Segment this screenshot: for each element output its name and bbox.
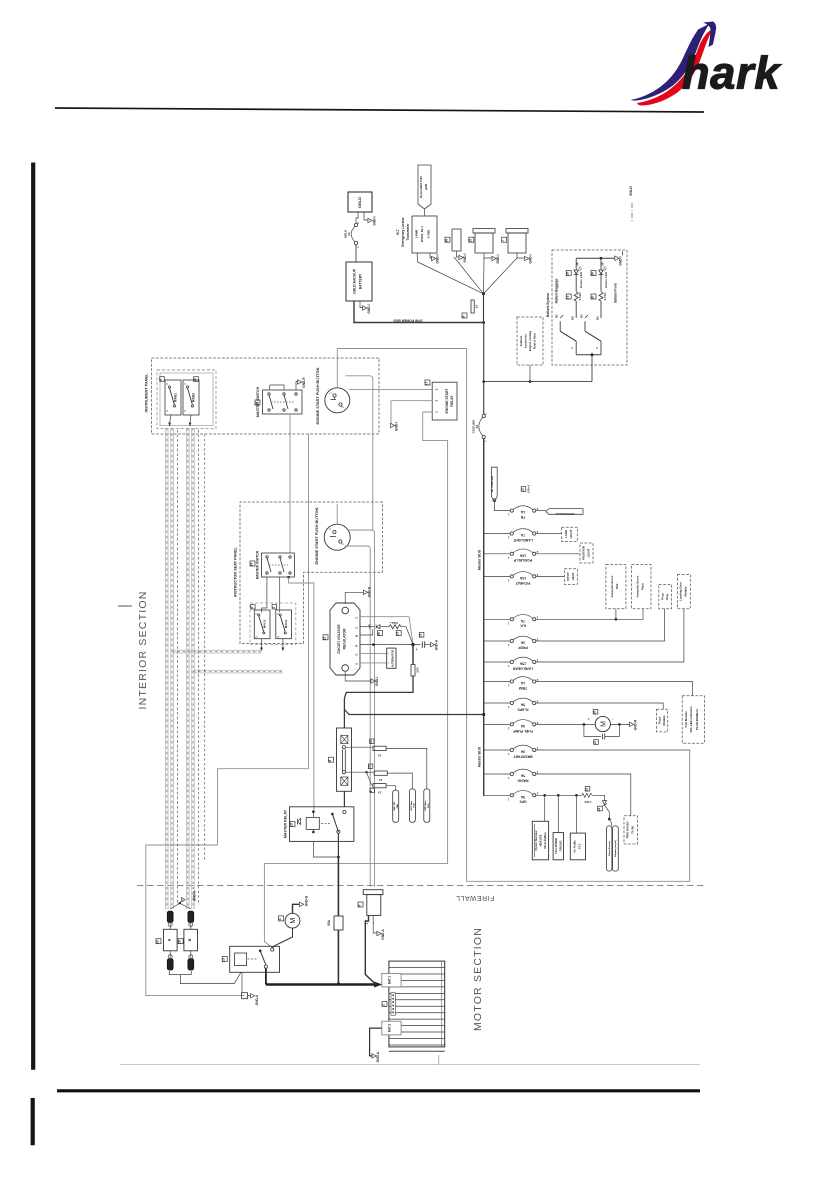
svg-text:1: 1 <box>278 636 280 638</box>
svg-text:BAT.2: BAT.2 <box>388 1023 392 1032</box>
svg-text:2: 2 <box>278 613 280 615</box>
svg-text:1: 1 <box>507 536 509 540</box>
svg-text:B: B <box>355 635 359 637</box>
svg-text:system for: system for <box>524 333 528 348</box>
svg-text:GND-B: GND-B <box>368 586 372 597</box>
svg-text:1: 1 <box>330 392 333 394</box>
svg-text:1: 1 <box>507 776 509 780</box>
svg-text:6: 6 <box>358 904 362 906</box>
svg-text:Green LED: Green LED <box>579 271 583 288</box>
svg-text:26: 26 <box>566 272 570 276</box>
svg-text:G: G <box>355 654 359 656</box>
svg-text:1: 1 <box>507 752 509 756</box>
svg-text:16: 16 <box>593 711 597 715</box>
svg-text:ENGINE START PUSH BUTTON: ENGINE START PUSH BUTTON <box>315 507 319 564</box>
svg-text:TRIM: TRIM <box>519 686 527 690</box>
svg-text:Pitch: Pitch <box>641 583 645 590</box>
svg-text:Trim Module: Trim Module <box>684 711 688 728</box>
svg-text:Roll: Roll <box>615 584 619 590</box>
svg-text:TRIG RADIO: TRIG RADIO <box>626 821 630 839</box>
svg-text:1: 1 <box>271 607 275 609</box>
svg-text:4.7kO: 4.7kO <box>603 292 607 301</box>
svg-text:50car-PgBus: 50car-PgBus <box>543 832 547 849</box>
svg-text:1A: 1A <box>347 231 351 236</box>
svg-text:MOTOR SECTION: MOTOR SECTION <box>472 927 484 1031</box>
svg-text:1-PWR: 1-PWR <box>415 230 419 239</box>
svg-text:AT-1: AT-1 <box>578 843 582 849</box>
svg-text:GND-A: GND-A <box>255 994 259 1005</box>
svg-text:Autopilot Servo: Autopilot Servo <box>610 575 614 597</box>
svg-text:Ballast-System: Ballast-System <box>546 293 550 317</box>
svg-text:Master BUS: Master BUS <box>478 746 482 767</box>
svg-text:5: 5 <box>435 388 439 390</box>
svg-text:13: 13 <box>419 634 423 638</box>
svg-text:1A: 1A <box>520 681 525 685</box>
svg-text:MAG2: MAG2 <box>192 393 196 402</box>
svg-text:Master BUS: Master BUS <box>478 549 482 570</box>
svg-text:Emergency Locator: Emergency Locator <box>401 216 405 246</box>
svg-text:10A: 10A <box>519 576 526 580</box>
svg-text:NC: NC <box>581 314 584 318</box>
svg-text:LAND: LAND <box>564 530 568 538</box>
svg-text:7A: 7A <box>520 619 525 623</box>
svg-text:ENGINE START: ENGINE START <box>445 388 449 414</box>
svg-text:Module: Module <box>684 586 688 597</box>
svg-text:2: 2 <box>382 1004 386 1006</box>
svg-text:Prop: Prop <box>661 593 665 600</box>
svg-text:1: 1 <box>256 636 258 638</box>
svg-text:1A: 1A <box>520 510 525 514</box>
svg-text:FIREWALL: FIREWALL <box>456 894 495 901</box>
svg-text:23: 23 <box>566 296 570 300</box>
svg-text:LANDLIGHT: LANDLIGHT <box>512 538 532 542</box>
svg-text:1: 1 <box>507 556 509 560</box>
svg-text:Green LED: Green LED <box>604 271 608 288</box>
svg-text:13: 13 <box>222 958 226 962</box>
svg-text:ENGINE START PUSH BUTTON: ENGINE START PUSH BUTTON <box>316 367 320 424</box>
svg-text:GND-R: GND-R <box>634 719 638 730</box>
svg-text:POSITION: POSITION <box>582 546 586 560</box>
svg-text:GBC 300: GBC 300 <box>394 801 396 811</box>
svg-text:1: 1 <box>357 246 360 248</box>
svg-text:AUX IN Radio: AUX IN Radio <box>555 512 574 516</box>
svg-text:14: 14 <box>250 563 254 567</box>
svg-text:3: 3 <box>278 918 282 920</box>
svg-text:17: 17 <box>425 382 429 386</box>
svg-text:GND-B: GND-B <box>305 895 309 906</box>
svg-text:MASTER RELAY: MASTER RELAY <box>284 809 288 838</box>
svg-text:GND-A: GND-A <box>381 929 385 940</box>
svg-text:ELT: ELT <box>396 229 400 235</box>
svg-text:FUEL PUMP: FUEL PUMP <box>513 729 533 733</box>
svg-text:2: 2 <box>185 383 187 385</box>
svg-text:14: 14 <box>255 402 259 406</box>
svg-text:PIT.HEAT: PIT.HEAT <box>515 581 531 585</box>
svg-text:25: 25 <box>377 632 381 636</box>
svg-text:1A: 1A <box>378 754 382 758</box>
svg-text:DUCATI VOLTAGE: DUCATI VOLTAGE <box>337 624 341 654</box>
svg-text:Air Traffic A/A: Air Traffic A/A <box>491 476 494 493</box>
svg-text:Flarm Remote: Flarm Remote <box>608 840 611 855</box>
svg-text:~: ~ <box>388 652 391 654</box>
svg-text:MASTER SWITCH: MASTER SWITCH <box>256 550 260 579</box>
svg-text:1A: 1A <box>378 791 382 795</box>
svg-text:GND-I: GND-I <box>496 254 500 263</box>
svg-text:BRS/START: BRS/START <box>513 754 533 758</box>
svg-text:REGULATOR: REGULATOR <box>343 628 347 650</box>
svg-text:10: 10 <box>591 296 595 300</box>
svg-text:Ballast-Front: Ballast-Front <box>614 282 618 302</box>
svg-text:5A: 5A <box>520 795 525 799</box>
svg-text:C: C <box>571 347 574 349</box>
svg-text:1: 1 <box>329 528 332 530</box>
svg-text:C: C <box>355 627 359 629</box>
svg-text:15: 15 <box>193 378 197 382</box>
svg-text:9: 9 <box>369 790 373 792</box>
svg-text:Transmitter: Transmitter <box>406 223 410 241</box>
svg-text:TY 96: TY 96 <box>631 826 635 834</box>
svg-text:15: 15 <box>468 239 472 243</box>
svg-text:LIGHT: LIGHT <box>587 548 591 557</box>
svg-text:Dynon HDX 1100: Dynon HDX 1100 <box>419 176 423 198</box>
svg-text:3: 3 <box>435 400 439 402</box>
svg-text:23: 23 <box>597 808 601 812</box>
svg-text:1: 1 <box>507 726 509 730</box>
svg-text:-: - <box>611 718 615 719</box>
svg-text:10: 10 <box>156 940 160 944</box>
svg-text:AP: AP <box>602 262 605 266</box>
svg-text:4.7kO: 4.7kO <box>578 292 582 301</box>
svg-text:HDX1100: HDX1100 <box>539 834 543 846</box>
svg-text:GND-I: GND-I <box>619 256 623 265</box>
svg-text:5A: 5A <box>520 703 525 707</box>
svg-text:1: 1 <box>507 513 509 517</box>
svg-text:GPS: GPS <box>519 800 527 804</box>
svg-text:INTERIOR SECTION: INTERIOR SECTION <box>137 591 149 710</box>
svg-text:GBLD BACKUP: GBLD BACKUP <box>353 268 357 294</box>
svg-text:PAD: PAD <box>396 804 399 809</box>
svg-text:NO: NO <box>572 316 575 320</box>
svg-text:Engine cooling: Engine cooling <box>528 331 532 351</box>
svg-text:7: 7 <box>501 240 505 242</box>
svg-text:Reg.: Reg. <box>665 593 669 600</box>
svg-text:15A: 15A <box>519 662 526 666</box>
svg-text:1: 1 <box>507 684 509 688</box>
svg-text:Radi & Vent: Radi & Vent <box>533 333 537 349</box>
svg-text:13: 13 <box>290 823 294 827</box>
svg-text:7x30: 7x30 <box>414 802 416 808</box>
svg-text:2: 2 <box>357 222 360 224</box>
svg-text:BATTERY: BATTERY <box>359 273 363 289</box>
svg-text:1: 1 <box>435 411 439 413</box>
svg-text:RS232_Rx-4: RS232_Rx-4 <box>420 226 424 242</box>
svg-text:INSTRUMENT PANEL: INSTRUMENT PANEL <box>145 373 149 413</box>
svg-text:NC: NC <box>556 314 559 318</box>
svg-text:MAG1: MAG1 <box>262 619 266 628</box>
svg-text:RADIO: RADIO <box>517 778 528 782</box>
svg-text:SHLD: SHLD <box>629 186 633 196</box>
svg-text:GND-A: GND-A <box>435 639 439 650</box>
svg-text:hark: hark <box>682 48 781 99</box>
svg-text:+: + <box>415 648 419 650</box>
svg-text:PGC: PGC <box>428 803 430 808</box>
svg-text:GND-I: GND-I <box>367 304 371 313</box>
svg-text:FLAPS: FLAPS <box>517 707 529 711</box>
svg-text:1: 1 <box>185 410 187 412</box>
svg-text:+: + <box>587 718 591 720</box>
svg-text:13: 13 <box>396 632 400 636</box>
svg-text:GBLD: GBLD <box>358 197 362 208</box>
svg-text:DRC Ans: DRC Ans <box>410 800 413 810</box>
svg-text:1: 1 <box>507 797 509 801</box>
svg-text:1: 1 <box>507 664 509 668</box>
svg-text:2: 2 <box>485 413 488 415</box>
svg-text:7A: 7A <box>520 533 525 537</box>
svg-text:5A: 5A <box>520 774 525 778</box>
svg-text:A.P.: A.P. <box>520 624 526 628</box>
svg-text:R: R <box>355 645 359 647</box>
svg-text:1: 1 <box>167 410 169 412</box>
svg-text:AP: AP <box>577 262 580 266</box>
svg-text:2: 2 <box>342 543 345 545</box>
svg-text:+: + <box>366 922 370 924</box>
svg-text:~: ~ <box>388 662 391 664</box>
svg-text:Arduino: Arduino <box>519 335 523 346</box>
svg-text:10A: 10A <box>519 553 526 557</box>
svg-text:MAG1: MAG1 <box>174 393 178 402</box>
svg-text:26: 26 <box>445 239 449 243</box>
svg-text:M: M <box>600 721 607 727</box>
svg-text:G: G <box>355 663 359 665</box>
svg-text:LIGHT: LIGHT <box>569 529 573 538</box>
svg-text:NO: NO <box>597 316 600 320</box>
svg-text:3A: 3A <box>520 641 525 645</box>
svg-text:5-GND: 5-GND <box>427 230 431 238</box>
svg-text:12: 12 <box>593 741 597 745</box>
svg-text:GND-I: GND-I <box>373 216 377 225</box>
svg-text:GND-A: GND-A <box>376 1051 380 1062</box>
svg-text:8: 8 <box>462 315 466 317</box>
svg-text:GND-I: GND-I <box>529 254 533 263</box>
svg-text:Display (on pnl): Display (on pnl) <box>615 840 617 857</box>
svg-text:HEAT: HEAT <box>571 572 575 580</box>
svg-text:Module: Module <box>662 715 666 726</box>
svg-text:Air Traffic: Air Traffic <box>573 840 577 853</box>
svg-text:12: 12 <box>521 488 525 492</box>
svg-text:6: 6 <box>328 760 332 762</box>
svg-text:1: 1 <box>485 440 488 442</box>
svg-text:1: 1 <box>507 643 509 647</box>
svg-text:ALTERNATOR: ALTERNATOR <box>391 650 395 668</box>
svg-text:+5V: +5V <box>367 624 371 629</box>
svg-text:2: 2 <box>256 613 258 615</box>
svg-text:INSTRUCTOR SEAT PANEL: INSTRUCTOR SEAT PANEL <box>234 546 238 596</box>
svg-text:1: 1 <box>507 705 509 709</box>
svg-text:GND-I: GND-I <box>463 253 467 262</box>
svg-text:5V-AP-PANEL/A: 5V-AP-PANEL/A <box>695 709 699 730</box>
svg-text:C: C <box>355 617 359 619</box>
svg-text:10A: LED indication: 10A: LED indication <box>689 706 693 733</box>
svg-text:PITOT: PITOT <box>566 572 570 581</box>
svg-text:20A: 20A <box>416 666 420 672</box>
svg-text:3A: 3A <box>520 750 525 754</box>
svg-text:Flaps: Flaps <box>658 716 662 724</box>
svg-text:GRC Ans.: GRC Ans. <box>424 800 427 811</box>
svg-text:B: B <box>188 938 192 941</box>
svg-text:13: 13 <box>369 740 373 744</box>
svg-text:GND-I: GND-I <box>375 677 379 686</box>
svg-text:TSO-XPNDR: TSO-XPNDR <box>554 838 558 854</box>
svg-text:Landing Gear: Landing Gear <box>679 581 683 601</box>
svg-text:9: 9 <box>159 379 163 381</box>
svg-text:GND-R: GND-R <box>302 377 306 388</box>
svg-text:2: 2 <box>167 383 169 385</box>
svg-text:GND-I: GND-I <box>436 254 440 263</box>
svg-text:SYM POWER BUS: SYM POWER BUS <box>393 319 423 323</box>
svg-text:GRL/262: GRL/262 <box>559 840 563 851</box>
svg-text:1A: 1A <box>475 304 479 309</box>
svg-text:POS/LED-P: POS/LED-P <box>513 558 532 562</box>
svg-text:Autopilot Servo: Autopilot Servo <box>636 575 640 597</box>
svg-text:TB: TB <box>520 515 525 519</box>
svg-text:1A: 1A <box>379 778 383 782</box>
svg-text:Ballast-Baggage: Ballast-Baggage <box>555 278 559 303</box>
svg-text:LAND.GEAR: LAND.GEAR <box>512 666 533 670</box>
svg-text:M: M <box>290 918 297 924</box>
svg-text:1: 1 <box>507 621 509 625</box>
svg-text:RELAY: RELAY <box>450 395 454 407</box>
svg-text:16: 16 <box>178 940 182 944</box>
svg-text:pinB: pinB <box>424 184 428 190</box>
svg-text:PROP: PROP <box>517 645 527 649</box>
svg-text:3A: 3A <box>520 724 525 728</box>
svg-text:MAG2: MAG2 <box>284 619 288 628</box>
svg-text:11: 11 <box>323 636 327 640</box>
svg-text:GND-A: GND-A <box>193 890 197 901</box>
svg-text:12: 12 <box>368 765 372 769</box>
svg-text:1: 1 <box>507 578 509 582</box>
svg-text:4.7kO: 4.7kO <box>584 800 591 804</box>
svg-text:2: 2 <box>342 406 345 408</box>
svg-text:C: C <box>596 347 599 349</box>
svg-text:22: 22 <box>585 788 589 792</box>
svg-text:A: A <box>168 938 172 941</box>
svg-text:(1A+): (1A+) <box>527 485 531 492</box>
svg-text:50A: 50A <box>327 919 331 926</box>
svg-text:BAT.1: BAT.1 <box>388 975 392 984</box>
svg-text:4: 4 <box>250 607 254 609</box>
svg-text:5A: 5A <box>475 424 479 429</box>
svg-text:30: 30 <box>591 272 595 276</box>
svg-text:GND-I: GND-I <box>395 422 399 431</box>
